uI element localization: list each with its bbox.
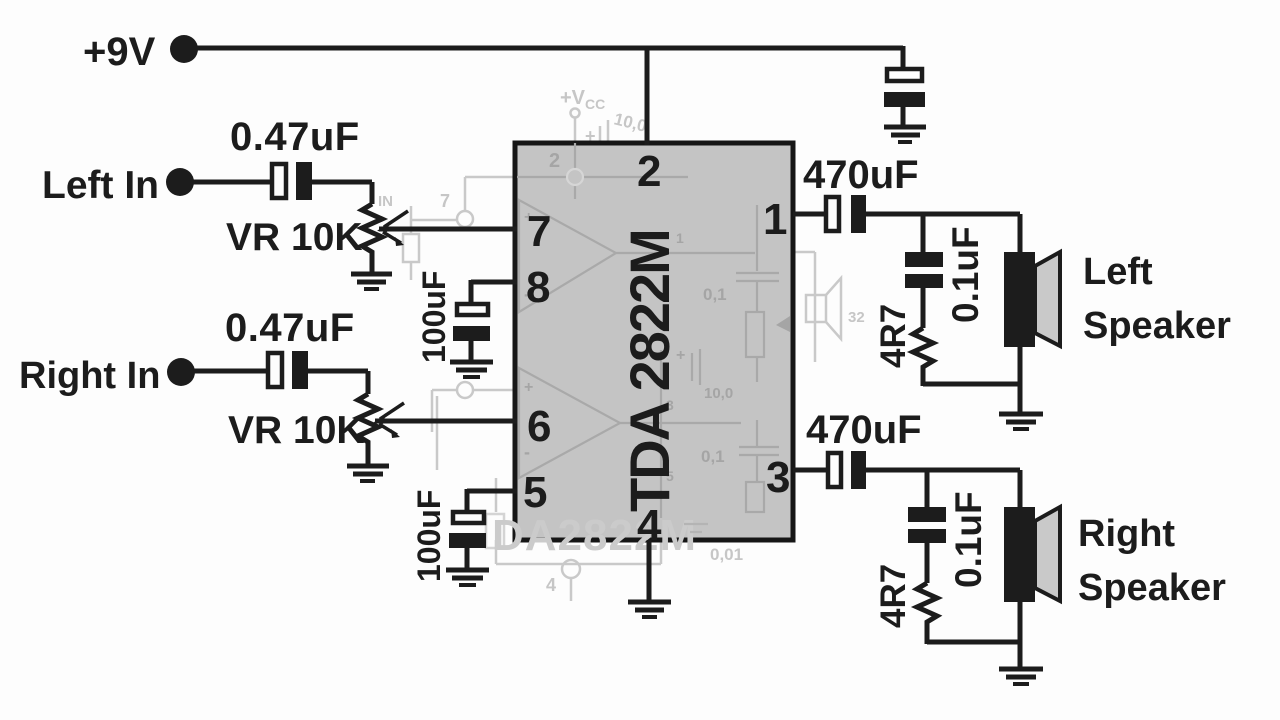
svg-text:100uF: 100uF — [411, 490, 447, 582]
svg-text:+: + — [524, 379, 533, 396]
svg-text:10,0: 10,0 — [704, 385, 733, 402]
svg-text:VR 10K: VR 10K — [228, 409, 365, 452]
svg-text:3: 3 — [766, 453, 790, 502]
svg-text:0,1: 0,1 — [701, 447, 725, 466]
svg-text:Right In: Right In — [19, 355, 160, 397]
svg-text:2: 2 — [549, 150, 560, 172]
svg-text:7: 7 — [440, 191, 450, 211]
svg-text:Right: Right — [1078, 513, 1175, 555]
svg-text:0.1uF: 0.1uF — [945, 226, 986, 323]
svg-text:Speaker: Speaker — [1078, 567, 1226, 609]
svg-text:DA2822M: DA2822M — [492, 511, 697, 560]
svg-text:8: 8 — [526, 263, 550, 312]
svg-text:100uF: 100uF — [416, 271, 452, 363]
svg-text:32: 32 — [848, 309, 865, 326]
svg-text:Left In: Left In — [42, 164, 159, 207]
svg-text:4R7: 4R7 — [874, 564, 913, 628]
svg-text:6: 6 — [527, 402, 551, 451]
svg-text:VR 10K: VR 10K — [226, 216, 363, 259]
svg-text:TDA 2822M: TDA 2822M — [618, 230, 681, 512]
svg-text:1: 1 — [763, 195, 787, 244]
svg-text:IN: IN — [378, 193, 393, 210]
svg-text:0.1uF: 0.1uF — [948, 491, 989, 588]
svg-text:Left: Left — [1083, 251, 1153, 293]
svg-text:2: 2 — [637, 147, 661, 196]
svg-text:4R7: 4R7 — [874, 304, 913, 368]
svg-text:7: 7 — [527, 207, 551, 256]
svg-text:470uF: 470uF — [803, 153, 919, 197]
svg-text:0,01: 0,01 — [710, 545, 743, 564]
svg-text:4: 4 — [546, 575, 556, 595]
svg-text:+9V: +9V — [83, 30, 156, 74]
svg-text:0,1: 0,1 — [703, 285, 727, 304]
svg-text:Speaker: Speaker — [1083, 305, 1231, 347]
svg-text:0.47uF: 0.47uF — [225, 306, 355, 350]
svg-text:470uF: 470uF — [806, 408, 922, 452]
svg-text:10,0: 10,0 — [612, 109, 649, 135]
svg-text:5: 5 — [523, 468, 547, 517]
svg-text:0.47uF: 0.47uF — [230, 115, 360, 159]
svg-text:+VCC: +VCC — [560, 87, 605, 112]
